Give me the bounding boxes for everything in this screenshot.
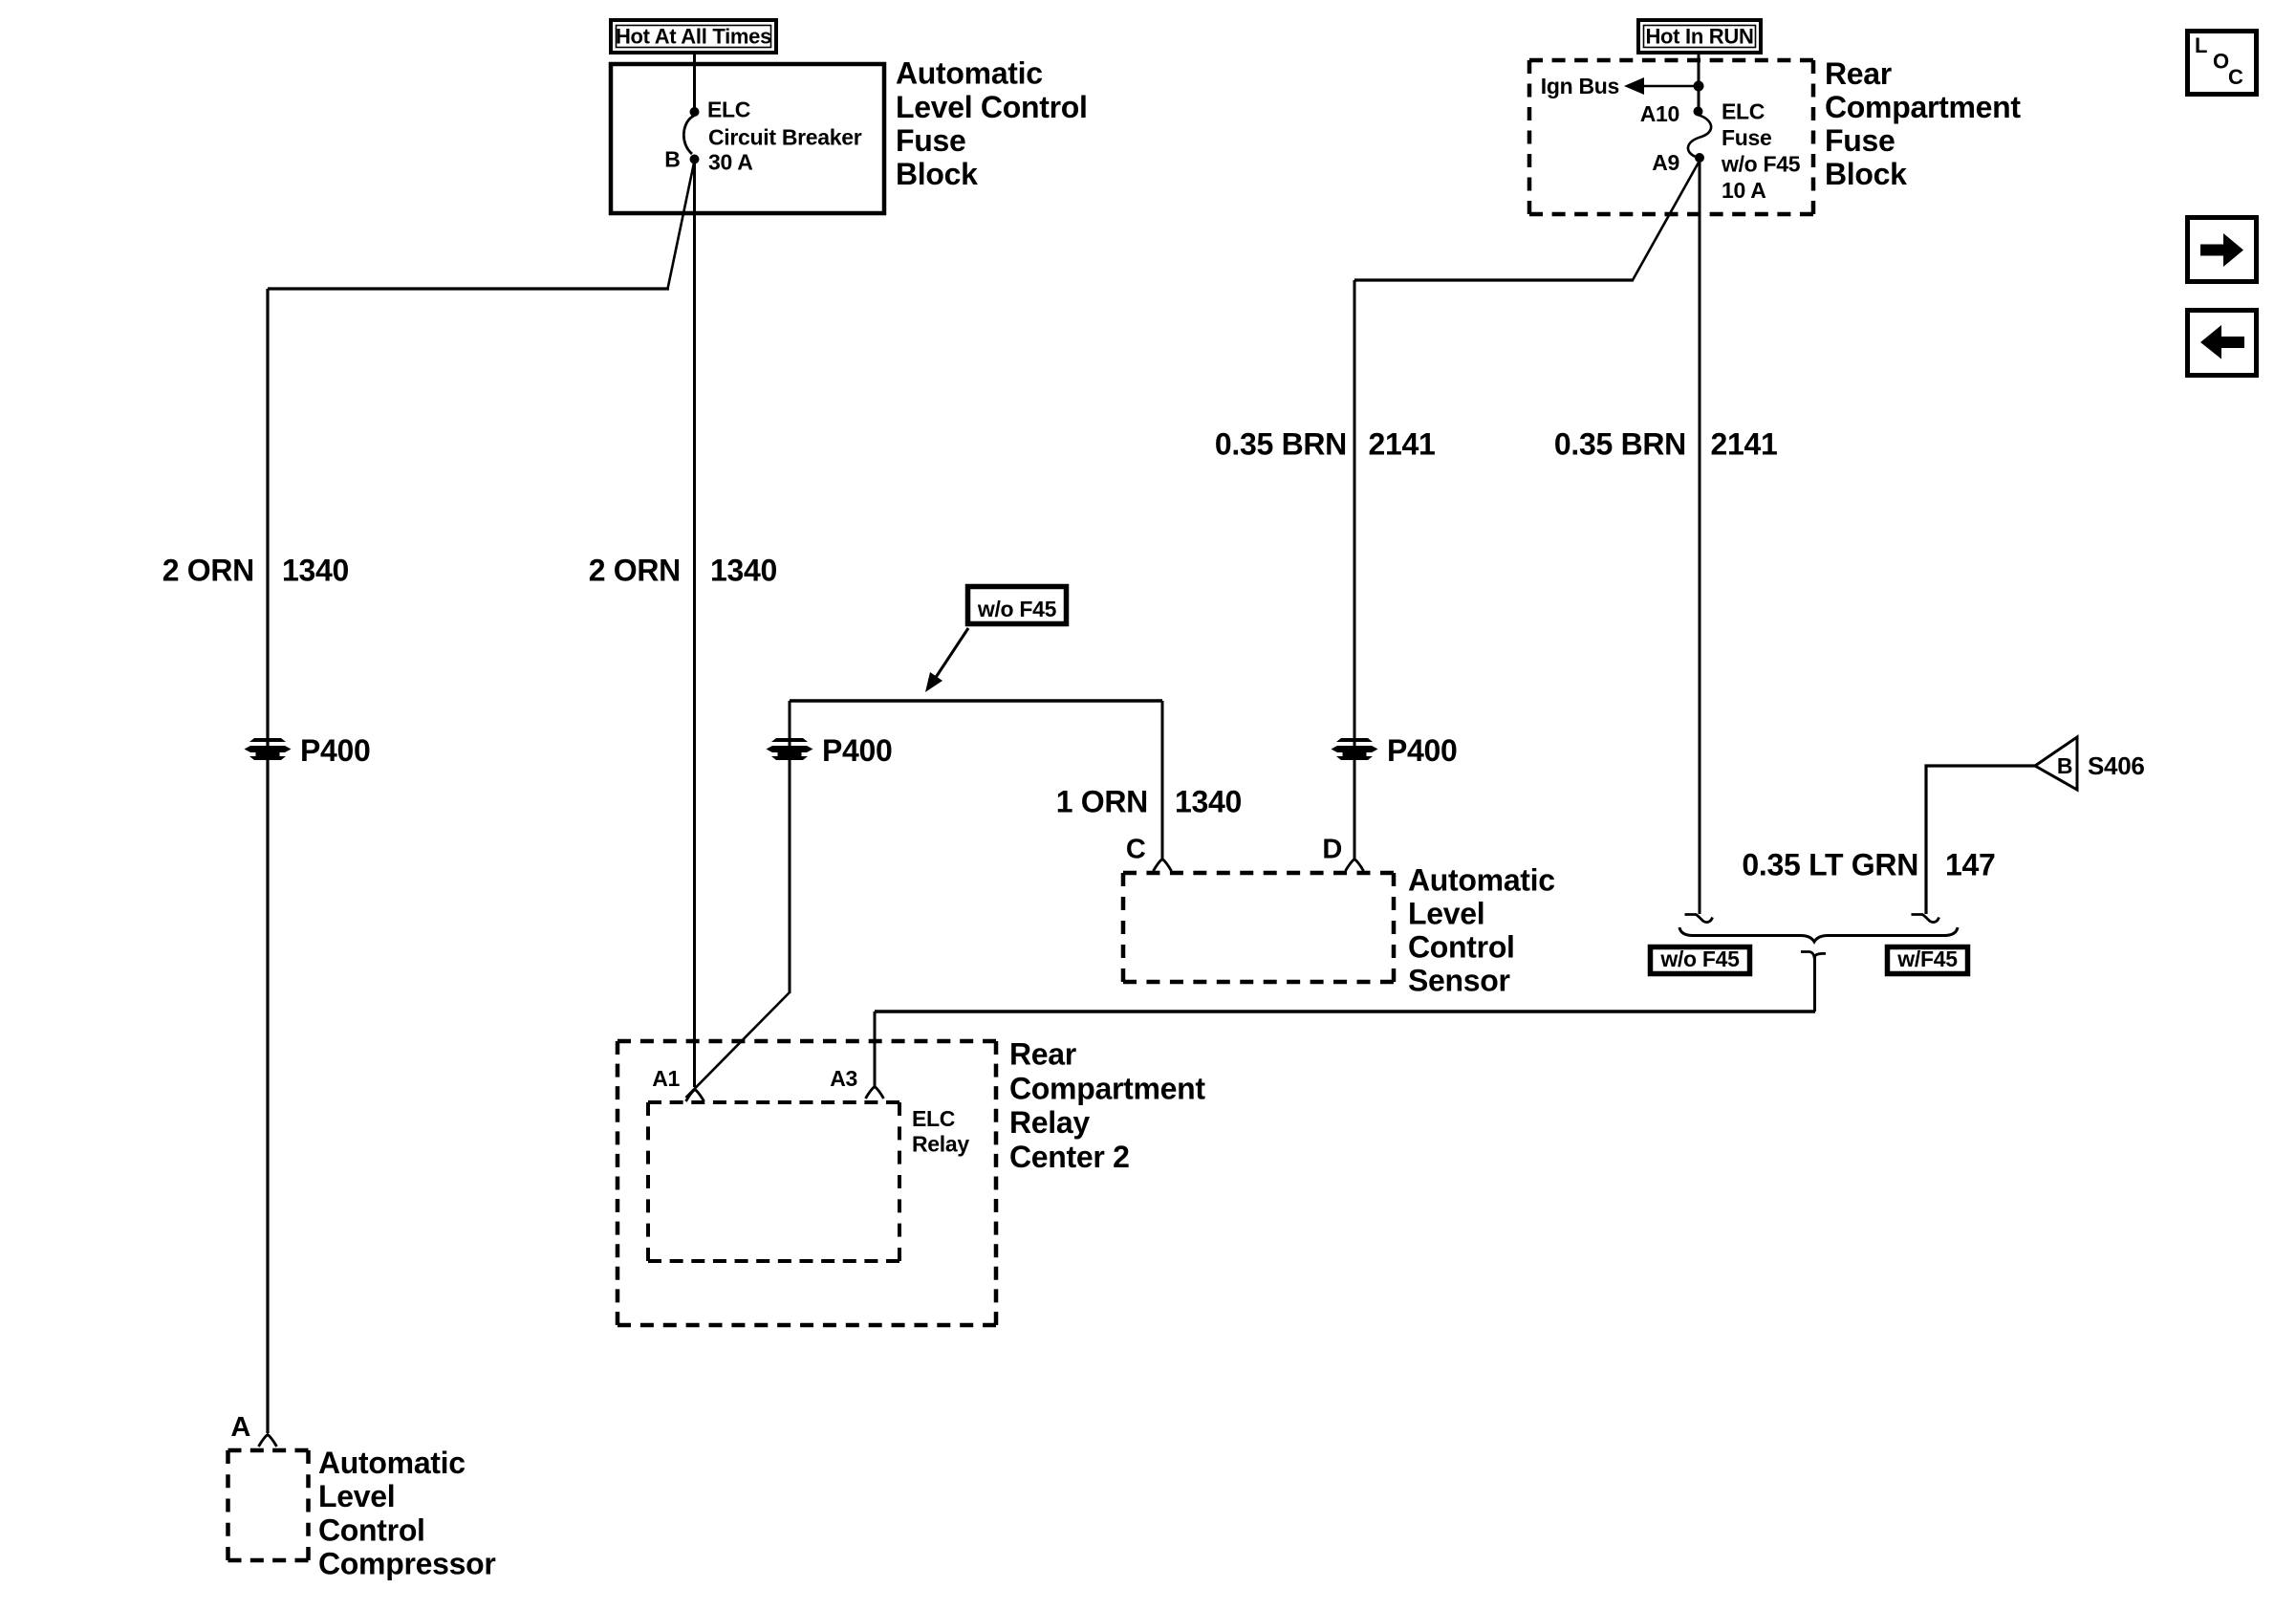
svg-text:Automatic: Automatic <box>318 1446 466 1480</box>
svg-text:ELC: ELC <box>1722 99 1765 124</box>
svg-text:10 A: 10 A <box>1722 178 1766 203</box>
wire label 2 ORN / 1340 (left) <box>162 554 349 588</box>
pin C of sensor <box>1154 859 1172 872</box>
svg-text:A: A <box>230 1412 250 1443</box>
svg-text:A1: A1 <box>652 1066 680 1091</box>
LOC legend box <box>2188 32 2257 95</box>
svg-text:A3: A3 <box>830 1066 857 1091</box>
svg-text:0.35 BRN: 0.35 BRN <box>1554 427 1686 462</box>
option label box w/o F45 <box>968 587 1067 624</box>
label Automatic Level Control Fuse Block <box>896 56 1088 192</box>
wire label 2 ORN / 1340 (middle) <box>589 554 777 588</box>
wire: horizontal to 0.35 BRN drop <box>1354 278 1634 281</box>
svg-text:ELC: ELC <box>707 98 750 122</box>
option box w/o F45 <box>1651 946 1750 974</box>
svg-text:0.35 BRN: 0.35 BRN <box>1215 427 1347 462</box>
svg-text:A9: A9 <box>1652 150 1679 175</box>
svg-text:w/o F45: w/o F45 <box>1721 152 1801 177</box>
wire label 0.35 BRN / 2141 (right) <box>1554 427 1778 462</box>
svg-text:Level: Level <box>1408 897 1484 931</box>
legend left-arrow box <box>2188 311 2257 376</box>
svg-text:C: C <box>2228 65 2243 89</box>
option brace <box>1679 927 1958 942</box>
svg-text:A10: A10 <box>1640 101 1679 126</box>
wire: horizontal from brace to relay pin A3 <box>875 1010 1815 1013</box>
svg-text:Hot At All Times: Hot At All Times <box>616 25 771 49</box>
Automatic Level Control Fuse Block box <box>611 64 884 213</box>
node: circuit breaker pin B <box>690 155 700 164</box>
svg-text:Sensor: Sensor <box>1408 964 1510 998</box>
brace tail squiggle <box>1801 952 1826 958</box>
power label "Hot At All Times" <box>611 20 776 53</box>
pin D of sensor <box>1346 859 1364 872</box>
svg-text:Control: Control <box>318 1513 425 1548</box>
label ELC Circuit Breaker 30 A <box>707 98 862 175</box>
node: circuit breaker top terminal <box>690 107 700 117</box>
svg-text:Hot In RUN: Hot In RUN <box>1645 25 1753 49</box>
svg-text:P400: P400 <box>822 733 893 768</box>
connector P400 (branch wire) <box>767 738 813 760</box>
svg-text:B: B <box>2057 753 2072 778</box>
legend right-arrow box <box>2188 218 2257 282</box>
svg-text:C: C <box>1126 835 1146 865</box>
circuit breaker ELC 30 A symbol <box>683 116 694 154</box>
wire: vertical to relay pin A3 <box>874 1012 877 1087</box>
arrow from w/o F45 box to wire <box>933 628 968 682</box>
svg-text:0.35 LT GRN: 0.35 LT GRN <box>1742 848 1918 882</box>
node: fuse pin A9 <box>1695 153 1704 163</box>
svg-text:30 A: 30 A <box>708 150 753 175</box>
svg-text:Level: Level <box>318 1479 395 1513</box>
wire: branch horizontal w/o F45 <box>790 699 1162 703</box>
wire: diagonal from pin B <box>668 161 695 289</box>
Rear Compartment Fuse Block dashed box <box>1529 60 1813 214</box>
svg-text:w/F45: w/F45 <box>1896 946 1958 971</box>
label ELC Fuse w/o F45 10 A <box>1721 99 1801 204</box>
wire: vertical 0.35 BRN 2141 from A9 down <box>1699 158 1701 914</box>
svg-text:2141: 2141 <box>1711 427 1778 462</box>
svg-text:S406: S406 <box>2088 751 2145 780</box>
svg-text:1340: 1340 <box>282 554 349 588</box>
svg-text:w/o F45: w/o F45 <box>1659 946 1740 971</box>
svg-text:P400: P400 <box>1387 733 1458 768</box>
svg-text:Rear: Rear <box>1009 1037 1076 1072</box>
svg-text:Fuse: Fuse <box>896 123 966 158</box>
splice S406 symbol <box>2035 737 2077 790</box>
svg-text:ELC: ELC <box>912 1106 955 1131</box>
svg-text:L: L <box>2195 33 2207 57</box>
wire label 0.35 BRN / 2141 (left) <box>1215 427 1436 462</box>
svg-text:Automatic: Automatic <box>896 56 1043 91</box>
Automatic Level Control Compressor dashed box <box>228 1450 309 1560</box>
pin A of compressor <box>259 1435 277 1447</box>
wire: left vertical 2 ORN 1340 <box>266 289 269 1433</box>
pin A1 of relay center <box>686 1090 704 1102</box>
fuse ELC 10 A symbol <box>1688 115 1711 157</box>
label Automatic Level Control Sensor <box>1408 863 1555 998</box>
wire: vertical 2 ORN 1340 from breaker to relay A1 <box>693 158 696 1087</box>
wire: diagonal from pin A9 <box>1633 161 1700 280</box>
svg-text:1340: 1340 <box>710 554 777 588</box>
Rear Compartment Relay Center 2 dashed box <box>617 1041 996 1325</box>
svg-text:Block: Block <box>1825 157 1907 191</box>
wire from Hot At All Times into fuse block <box>693 54 696 109</box>
svg-text:2 ORN: 2 ORN <box>162 554 254 588</box>
svg-text:Compartment: Compartment <box>1825 90 2021 124</box>
power label "Hot In RUN" <box>1638 20 1761 53</box>
wire: from S406 <box>1926 766 2035 914</box>
svg-text:Rear: Rear <box>1825 56 1892 91</box>
node: fuse pin A10 <box>1694 107 1703 117</box>
node: Ign Bus junction <box>1694 81 1704 92</box>
svg-text:Compressor: Compressor <box>318 1547 496 1581</box>
svg-text:2141: 2141 <box>1369 427 1436 462</box>
svg-text:Fuse: Fuse <box>1722 125 1771 150</box>
label ELC Relay <box>912 1106 969 1157</box>
label Rear Compartment Fuse Block <box>1825 56 2021 191</box>
wire: vertical 1 ORN 1340 to sensor pin C <box>1161 701 1164 859</box>
svg-text:O: O <box>2213 50 2229 74</box>
svg-text:B: B <box>664 147 680 172</box>
svg-text:D: D <box>1322 835 1342 865</box>
Ign Bus arrow <box>1640 85 1699 88</box>
svg-text:P400: P400 <box>300 733 371 768</box>
label Rear Compartment Relay Center 2 <box>1009 1037 1205 1175</box>
svg-text:Level Control: Level Control <box>896 90 1088 124</box>
label Automatic Level Control Compressor <box>318 1446 496 1581</box>
wire: diagonal into relay pin A1 <box>686 992 791 1098</box>
connector P400 (left wire) <box>245 738 292 760</box>
svg-text:1340: 1340 <box>1175 785 1242 819</box>
svg-text:1 ORN: 1 ORN <box>1056 785 1148 819</box>
svg-text:w/o F45: w/o F45 <box>977 597 1057 621</box>
wire: horizontal to left branch <box>268 287 669 290</box>
svg-text:Ign Bus: Ign Bus <box>1541 74 1619 98</box>
ELC Relay dashed box <box>648 1102 899 1261</box>
option box w/F45 <box>1888 946 1968 974</box>
connector P400 (BRN wire) <box>1332 738 1378 760</box>
svg-text:Relay: Relay <box>1009 1105 1090 1140</box>
wire: vertical 0.35 BRN 2141 to sensor pin D <box>1354 280 1356 859</box>
pin A3 of relay center <box>866 1087 884 1099</box>
svg-text:Fuse: Fuse <box>1825 123 1895 158</box>
wire label 0.35 LT GRN / 147 <box>1742 848 1995 882</box>
svg-text:Relay: Relay <box>912 1132 969 1157</box>
svg-text:Control: Control <box>1408 930 1515 965</box>
Automatic Level Control Sensor dashed box <box>1123 873 1394 982</box>
svg-text:147: 147 <box>1945 848 1996 882</box>
svg-text:Circuit Breaker: Circuit Breaker <box>708 125 862 150</box>
wire from Hot In RUN into fuse block <box>1698 54 1700 109</box>
wire: branch vertical through P400 <box>789 701 791 993</box>
wire end hook (w/o F45 option) <box>1685 915 1713 923</box>
svg-text:Automatic: Automatic <box>1408 863 1555 898</box>
wire end hook (w/F45 option) <box>1912 915 1939 923</box>
svg-text:Compartment: Compartment <box>1009 1072 1205 1106</box>
svg-text:2 ORN: 2 ORN <box>589 554 681 588</box>
svg-text:Center 2: Center 2 <box>1009 1140 1130 1174</box>
svg-text:Block: Block <box>896 157 978 191</box>
wire label 1 ORN / 1340 <box>1056 785 1242 819</box>
